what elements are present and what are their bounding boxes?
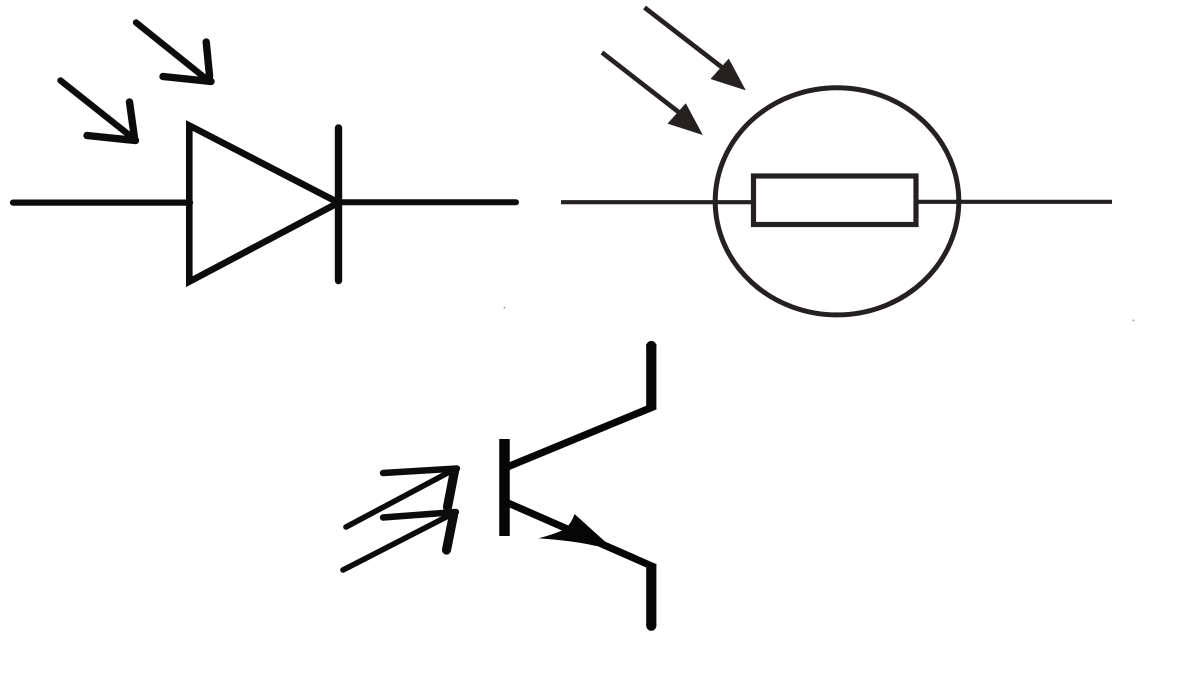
- wire right lead: [916, 200, 1112, 204]
- base bar: [499, 439, 510, 536]
- stray speck right: [1133, 320, 1135, 322]
- light arrow (upper) into LDR: [645, 8, 746, 91]
- photodiode D1: [13, 126, 516, 282]
- wire anode lead: [13, 200, 190, 206]
- phototransistor Q1: [505, 341, 657, 631]
- collector diagonal: [506, 406, 655, 468]
- collector lead vertical: [646, 344, 656, 409]
- stray speck center: [504, 307, 506, 309]
- light arrow (lower) into photodiode: [61, 81, 136, 141]
- cathode bar: [335, 128, 342, 281]
- LDR circle: [715, 88, 959, 315]
- emitter arrowhead: [539, 514, 611, 547]
- emitter diagonal: [507, 503, 655, 568]
- light arrow (upper) into phototransistor: [346, 469, 457, 528]
- light arrow (lower) into phototransistor: [343, 512, 456, 570]
- diode triangle: [189, 126, 338, 282]
- photoresistor LDR R1: [561, 88, 1112, 315]
- wire left lead: [561, 200, 753, 204]
- resistor body rectangle: [754, 176, 917, 225]
- light arrow (lower) into LDR: [602, 53, 703, 136]
- emitter lead vertical: [646, 564, 656, 626]
- light arrow (upper) into photodiode: [136, 23, 211, 82]
- wire cathode lead: [339, 199, 517, 205]
